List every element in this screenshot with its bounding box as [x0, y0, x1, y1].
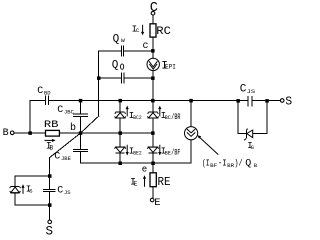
svg-text:w: w	[121, 37, 125, 44]
svg-text:C: C	[150, 0, 158, 16]
wire main bus left of cap CBD	[30, 100, 45, 102]
wire diagonal from Q column through node b to substrate	[50, 116, 99, 176]
svg-text:/BR: /BR	[171, 113, 180, 122]
diode IS substrate left (pointing up)	[10, 186, 21, 193]
wire Q0 bus	[99, 77, 153, 79]
svg-text:RB: RB	[44, 120, 59, 131]
junction dot bus / right loop right	[265, 99, 269, 103]
svg-text:BF: BF	[210, 162, 217, 169]
current source IEPI circle	[147, 58, 159, 70]
svg-text:e: e	[142, 165, 147, 175]
svg-text:BD: BD	[44, 89, 51, 96]
wire substrate-left cap branch	[49, 176, 51, 205]
terminal C circle	[151, 11, 155, 15]
terminal S bottom circle	[48, 220, 52, 224]
svg-text:b: b	[70, 122, 76, 134]
wire Cjbc branch	[80, 101, 82, 133]
junction dot B rail / left vertical	[28, 131, 32, 135]
svg-text:(I: (I	[202, 158, 210, 168]
arrow IBC2 up	[126, 106, 129, 117]
arrow IBC1 up	[158, 106, 161, 117]
wire left vertical from bus to B rail	[29, 101, 31, 133]
svg-text:Q: Q	[245, 158, 251, 169]
wire inner collector diode column	[152, 119, 154, 173]
junction dot bus / right loop left	[236, 99, 240, 103]
wire S drop	[49, 205, 51, 220]
resistor RE	[150, 173, 156, 187]
junction dot b rail / diode column 1	[119, 131, 123, 135]
wire Qw bus	[99, 50, 153, 52]
arrow Ic down	[141, 25, 144, 36]
diode IBC2 (outer B-C diode, pointing up)	[115, 112, 126, 118]
svg-text:B: B	[3, 128, 9, 139]
resistor RB	[46, 130, 60, 136]
arrow IE up	[143, 175, 146, 186]
capacitor CBD plates	[45, 96, 48, 105]
diode IBE2 (outer B-E diode, pointing down)	[115, 147, 126, 153]
capacitor CJS left plates	[43, 189, 55, 191]
terminal S right circle	[280, 99, 284, 103]
wire main bus center	[49, 100, 248, 102]
wire emitter column below RE	[152, 187, 154, 199]
wire Cjbe branch	[80, 133, 82, 163]
svg-text:-I: -I	[218, 158, 227, 168]
junction dot Q0 bus left	[97, 76, 101, 80]
svg-text:C: C	[54, 151, 60, 162]
arrow IBE2 down	[126, 145, 129, 156]
svg-text:c: c	[136, 27, 140, 34]
resistor RC	[150, 24, 156, 37]
capacitor CJS right plates	[248, 97, 252, 106]
capacitor Q0 plates	[121, 73, 124, 83]
arrow pointer to transfer source	[197, 135, 218, 154]
svg-text:c: c	[143, 41, 149, 52]
junction dot bus / collector column	[151, 99, 155, 103]
wire e rail	[81, 162, 192, 164]
wire substrate-left bottom rail	[15, 204, 50, 206]
wire transfer source column	[190, 101, 192, 164]
svg-text:BE2: BE2	[133, 150, 142, 157]
svg-text:BC2: BC2	[133, 114, 142, 121]
svg-text:)/: )/	[234, 158, 242, 168]
wire substrate-left top rail	[15, 175, 50, 177]
wire right substrate loop	[238, 101, 267, 134]
svg-text:RC: RC	[156, 26, 171, 38]
svg-text:JS: JS	[247, 88, 256, 95]
svg-text:C: C	[37, 86, 43, 97]
svg-text:S: S	[285, 96, 292, 109]
junction dot node b	[79, 131, 83, 135]
svg-text:Q: Q	[112, 60, 119, 72]
current source transfer (IBF-IBR)/QB circle	[185, 127, 198, 140]
diode IS substrate right (pointing left)	[244, 129, 253, 141]
wire B rail	[14, 132, 153, 134]
capacitor CJBE plates	[74, 150, 88, 152]
junction dot e rail / diode column 1	[119, 162, 123, 166]
svg-text:E: E	[154, 197, 160, 209]
svg-text:JBE: JBE	[61, 155, 72, 162]
junction dot bus / transfer source column	[189, 99, 193, 103]
junction dot bus / Cjbc branch	[79, 99, 83, 103]
svg-text:Q: Q	[113, 34, 120, 46]
svg-text:RE: RE	[158, 175, 171, 189]
junction dot b rail / collector column	[151, 131, 155, 135]
wire diode column 1	[119, 101, 121, 164]
svg-text:C: C	[57, 185, 63, 196]
junction dot Q0 bus / collector column	[151, 76, 155, 80]
wire substrate-left left vertical	[14, 176, 16, 205]
wire main bus right of cap CJS	[252, 100, 281, 102]
terminal E circle	[150, 198, 154, 202]
diode IBE1 (inner B-E diode, pointing down)	[147, 147, 158, 153]
arrow IBE1 down	[158, 145, 161, 156]
svg-text:JBC: JBC	[64, 109, 75, 116]
junction dot bus / diode column 1	[119, 99, 123, 103]
svg-text:E: E	[134, 181, 138, 188]
wire Q column vertical	[98, 51, 100, 116]
junction dot e rail / emitter column	[151, 162, 155, 166]
capacitor CJBC plates	[74, 114, 88, 116]
svg-text:S: S	[46, 224, 54, 237]
wire collector column	[152, 15, 154, 112]
svg-text:C: C	[57, 105, 63, 116]
svg-text:B: B	[50, 145, 54, 152]
junction dot substrate bottom rail	[48, 203, 52, 207]
terminal B circle	[10, 131, 14, 135]
capacitor Qw plates	[121, 46, 123, 56]
diode IBC1 (inner B-C diode, pointing up)	[147, 112, 158, 118]
arrow IS substrate up	[21, 184, 24, 194]
svg-text:/BF: /BF	[171, 148, 180, 157]
svg-text:JS: JS	[64, 189, 71, 196]
arrow IB right	[45, 139, 56, 142]
junction dot substrate top rail	[48, 174, 52, 178]
junction dot Qw bus / collector column	[151, 49, 155, 53]
svg-text:EPI: EPI	[165, 64, 176, 71]
